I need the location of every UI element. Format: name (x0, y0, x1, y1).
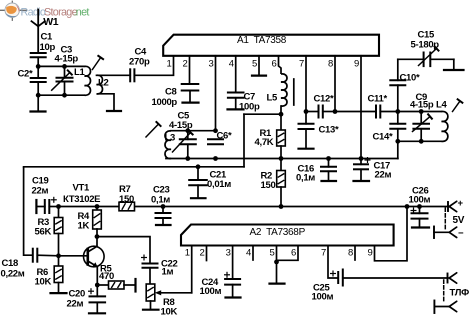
trimmer arrow L3 (146, 124, 159, 137)
op-amp U A1 TA7358 body (163, 35, 379, 56)
node C5 top (185, 128, 190, 133)
inductor L2 (97, 75, 103, 94)
pin 2 A2 (206, 246, 208, 261)
svg-text:100м: 100м (200, 286, 222, 297)
svg-text:5-180p: 5-180p (411, 40, 440, 51)
inductor L1 (85, 66, 91, 95)
svg-text:0,22м: 0,22м (1, 269, 25, 280)
svg-text:0,1м: 0,1м (296, 173, 315, 184)
inductor L5 (281, 74, 287, 106)
connector 5V plus (447, 202, 449, 211)
svg-text:−: − (458, 228, 464, 239)
capacitor C25 electrolytic (331, 273, 336, 275)
svg-text:C14*: C14* (373, 132, 394, 143)
node C19 R3 (56, 204, 61, 209)
capacitor C11* (375, 106, 377, 118)
capacitor C7 (228, 92, 244, 94)
capacitor C23 (162, 207, 164, 214)
wire supply rail (59, 206, 449, 208)
svg-text:9: 9 (368, 248, 373, 259)
svg-text:22м: 22м (67, 299, 84, 310)
svg-text:22м: 22м (32, 186, 49, 197)
wire collector (96, 237, 98, 247)
trimmer capacitor C9 (420, 112, 422, 124)
node pin9 riser (405, 204, 410, 209)
capacitor C4 (129, 69, 131, 81)
node pin8 C12 (333, 109, 338, 114)
op-amp U A2 TA7368P body (181, 225, 394, 246)
svg-text:10p: 10p (40, 42, 56, 53)
node C5 bottom (185, 156, 190, 161)
wire C14 to rail A (397, 141, 399, 158)
svg-text:1000p: 1000p (152, 97, 178, 108)
trimmer arrow L1 L2 (92, 58, 100, 70)
node pin7 C12 (304, 109, 309, 114)
pin 9 A2 to supply (375, 207, 408, 261)
svg-text:10K: 10K (35, 277, 52, 288)
svg-text:L1: L1 (74, 67, 86, 78)
svg-text:5: 5 (252, 59, 257, 70)
node C21 top (196, 164, 201, 169)
svg-text:100p: 100p (239, 102, 260, 113)
trimmer arrow L4 (453, 101, 461, 112)
svg-text:C13*: C13* (319, 125, 340, 136)
svg-text:C12*: C12* (314, 94, 335, 105)
node C26 top (417, 204, 422, 209)
pin 6 A2 (277, 246, 299, 261)
node tank top left (36, 64, 41, 69)
svg-text:9: 9 (354, 59, 359, 70)
wire tank4 bottom (398, 140, 442, 142)
node C16 top (326, 156, 331, 161)
svg-text:C2*: C2* (18, 69, 34, 80)
svg-text:C1: C1 (41, 32, 54, 43)
pin 8 A1 (334, 56, 336, 112)
pin 7 A1 (305, 56, 307, 112)
wire tank top rail (38, 65, 84, 67)
wire base (59, 255, 88, 257)
node C9 bottom (419, 139, 424, 144)
wire mid rail A (166, 158, 398, 160)
svg-text:C8: C8 (165, 87, 177, 98)
svg-text:5V: 5V (453, 215, 465, 226)
node C23 top (161, 204, 166, 209)
trimmer capacitor C15 (398, 58, 424, 60)
svg-text:L5: L5 (267, 93, 279, 104)
svg-text:1K: 1K (78, 221, 90, 232)
svg-text:8: 8 (348, 248, 353, 259)
ground below C2 (37, 95, 39, 111)
node pin5 pin6 (274, 260, 279, 265)
connector 5V minus (433, 227, 435, 239)
svg-text:C10*: C10* (400, 72, 421, 83)
svg-text:2: 2 (183, 59, 188, 70)
svg-text:C11*: C11* (368, 94, 388, 105)
connector TLF top (447, 274, 449, 283)
capacitor C18 (32, 249, 34, 262)
svg-text:100м: 100м (409, 195, 431, 206)
svg-text:4-15p: 4-15p (55, 54, 79, 65)
capacitor C19 electrolytic (44, 200, 46, 213)
wire oscillator node to buffer (244, 113, 281, 115)
svg-text:7: 7 (321, 248, 326, 259)
capacitor C12* (306, 111, 319, 113)
wire tank bottom rail (38, 94, 84, 96)
capacitor C14* (397, 112, 399, 124)
node C3 top (62, 64, 67, 69)
capacitor C21 (197, 167, 199, 180)
svg-text:+: + (458, 198, 464, 209)
pin 3 A2 (232, 246, 234, 280)
capacitor C6* (208, 138, 223, 140)
capacitor C1 (31, 52, 46, 54)
wire audio line B (24, 166, 244, 168)
node R2 supply (279, 204, 284, 209)
svg-text:L4: L4 (436, 100, 448, 111)
node R4 top (95, 204, 100, 209)
resistor R3 56K (58, 207, 60, 218)
svg-text:150: 150 (119, 194, 134, 205)
svg-text:0,1м: 0,1м (151, 195, 170, 206)
capacitor C22 electrolytic (142, 257, 147, 259)
svg-text:4: 4 (229, 59, 234, 70)
svg-text:22м: 22м (375, 170, 392, 181)
svg-text:2: 2 (200, 248, 205, 259)
node collector (95, 234, 100, 239)
wire C11 to tank4 (380, 111, 441, 113)
svg-text:100м: 100м (312, 292, 334, 303)
svg-text:8: 8 (328, 59, 333, 70)
svg-text:W1: W1 (43, 16, 59, 28)
logo text RadioStorage.net (21, 7, 90, 19)
resistor R2 150 (280, 159, 282, 171)
svg-text:6: 6 (291, 248, 296, 259)
svg-text:C18: C18 (2, 258, 19, 269)
pin 4 A2 (252, 246, 254, 261)
pin 1 A2 to R8 wiper (191, 246, 193, 293)
node emitter (95, 283, 100, 288)
wire emitter (96, 267, 98, 285)
ground pins 5 6 A2 (276, 262, 278, 283)
svg-text:A1 TA7358: A1 TA7358 (237, 35, 287, 46)
svg-text:3: 3 (209, 59, 214, 70)
capacitor C2* (37, 66, 39, 78)
capacitor C16 (328, 159, 330, 167)
antenna W1 (37, 10, 39, 54)
svg-text:5: 5 (270, 248, 275, 259)
svg-text:7: 7 (299, 59, 304, 70)
pin 5 A2 (276, 246, 278, 262)
trimmer capacitor C5 (187, 131, 189, 140)
svg-text:3: 3 (226, 248, 231, 259)
svg-text:1: 1 (185, 248, 190, 259)
svg-text:0,01м: 0,01м (207, 179, 231, 190)
svg-text:ТЛФ: ТЛФ (450, 288, 470, 299)
inductor L4 (442, 111, 448, 141)
node R1 R2 (279, 156, 284, 161)
svg-text:6: 6 (272, 59, 277, 70)
node L5 R1 (279, 112, 284, 117)
node C2 bottom (36, 93, 41, 98)
wire C4 to A1 pin 1 (134, 56, 173, 76)
wire C25 to TLF jack (343, 277, 448, 279)
node base (56, 253, 61, 258)
trimmer capacitor C3 (64, 66, 66, 77)
resistor R7 150 (119, 202, 135, 211)
capacitor C20 electrolytic (96, 285, 98, 296)
logo icon RadioStorage.net (0, 1, 27, 21)
wire L2 top to C4 (97, 74, 131, 76)
svg-text:1: 1 (167, 59, 172, 70)
node C6 bottom (213, 156, 218, 161)
wire C1 to tank node (37, 57, 39, 66)
pin 2 A1 (189, 56, 191, 84)
ground below L2 (107, 110, 121, 112)
node C10 C14 (395, 109, 400, 114)
svg-text:КТ3102Е: КТ3102Е (63, 194, 100, 205)
node C3 bottom (62, 93, 67, 98)
node C6 top (213, 128, 218, 133)
node C17 pin9 (359, 156, 364, 161)
svg-text:VT1: VT1 (73, 183, 91, 194)
pin 6 A1 (279, 56, 282, 74)
svg-text:.net: .net (74, 7, 90, 19)
svg-text:10K: 10K (161, 307, 178, 318)
capacitor C26 electrolytic (411, 210, 416, 212)
capacitor C10* (397, 59, 399, 80)
wire supply rail left end terminal (35, 200, 37, 213)
pin 3 A1 (215, 56, 217, 131)
wire audio line to C18 (24, 167, 33, 255)
svg-text:A2 TA7368P: A2 TA7368P (250, 227, 306, 238)
potentiometer R8 10K (146, 284, 155, 301)
resistor R5 470 (97, 284, 108, 286)
transistor VT1 (84, 246, 105, 267)
capacitor C17 electrolytic (360, 159, 362, 165)
inductor L3 (165, 131, 171, 159)
pin 4 A1 (235, 56, 237, 93)
capacitor C13* (305, 112, 307, 124)
svg-text:1м: 1м (162, 267, 174, 278)
wire dashed TLF (443, 280, 445, 303)
wire vertical to audio line (243, 114, 245, 167)
wire to C11 (335, 111, 376, 113)
svg-text:4-15p: 4-15p (169, 120, 193, 131)
svg-text:L3: L3 (165, 133, 176, 144)
svg-text:4-15p: 4-15p (410, 100, 434, 111)
svg-text:4: 4 (246, 248, 251, 259)
svg-text:4,7K: 4,7K (255, 137, 274, 148)
node C14 bottom (395, 139, 400, 144)
svg-text:150: 150 (261, 180, 276, 191)
wire collector to C22 (97, 237, 150, 264)
connector TLF bottom (433, 301, 435, 314)
svg-text:C6*: C6* (217, 131, 233, 142)
pin 7 A2 (328, 246, 338, 279)
wire L2 bottom to ground (97, 94, 115, 111)
resistor R4 1K (96, 207, 98, 211)
capacitor C24 electrolytic (225, 274, 230, 276)
svg-text:270p: 270p (129, 57, 150, 68)
pin 5 A1 to ground (258, 56, 260, 76)
svg-text:56K: 56K (35, 227, 52, 238)
svg-text:Radio: Radio (21, 7, 46, 19)
resistor R1 4.7K (280, 114, 282, 130)
pin 9 A1 (360, 56, 362, 159)
svg-text:470: 470 (99, 271, 114, 282)
resistor R6 10K (58, 256, 60, 266)
node C9 top (419, 109, 424, 114)
svg-text:L2: L2 (98, 78, 109, 89)
wire tank2 top rail (171, 130, 216, 132)
capacitor C8 (182, 83, 199, 85)
pin 8 A2 (354, 246, 356, 261)
wire dashed 5V (444, 208, 446, 231)
